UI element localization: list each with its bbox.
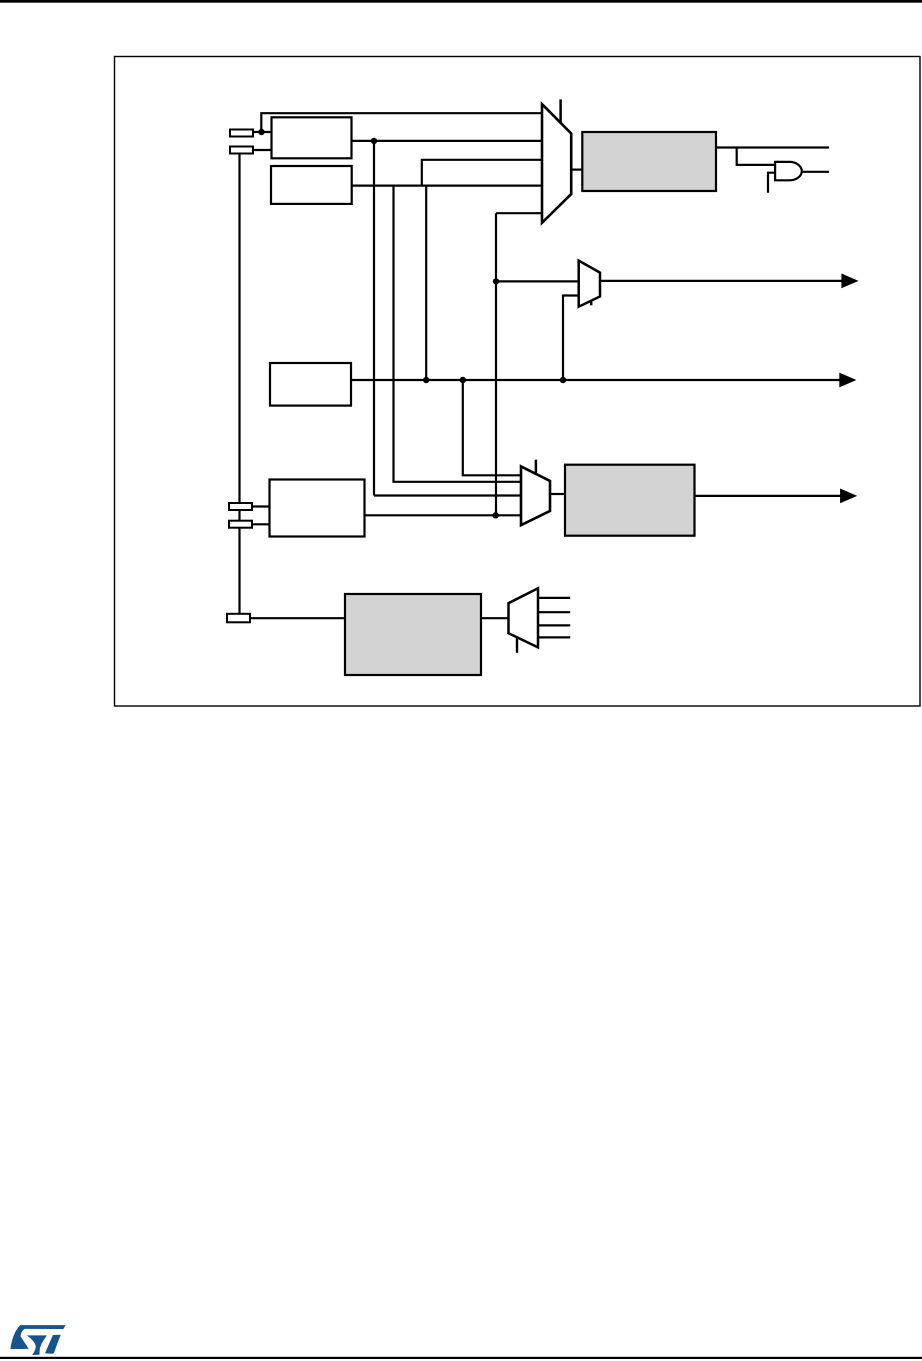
pin P5	[227, 614, 250, 623]
wire: feed to small mux U2 input a	[496, 280, 579, 282]
gray block G3	[345, 594, 481, 675]
node: junction on B1 output	[371, 138, 377, 144]
gray block G2	[565, 465, 695, 536]
mux U3 (lower multiplexer)	[521, 466, 550, 525]
arrowhead A2	[839, 373, 856, 388]
splitter select stub	[516, 637, 518, 653]
wire: vertical branch from B1 output down	[373, 141, 375, 496]
arrowhead A3	[840, 489, 857, 504]
wire: block B1 output to mux U1 input 2	[352, 140, 542, 142]
block B4	[270, 480, 365, 537]
mux U2 (small multiplexer)	[579, 261, 600, 307]
wire: block B4 output to mux U3 input d	[365, 514, 522, 516]
wire: block B2 output to mux U1 input 4	[352, 185, 542, 187]
node: junction on B3 line x426	[423, 377, 429, 383]
wire: left pin rail vertical	[238, 152, 240, 615]
wire: splitter output stub 3	[538, 624, 570, 626]
pin P3	[229, 503, 252, 510]
block B1 (oscillator)	[272, 117, 352, 158]
wire: mux U1 input 5 horizontal	[496, 212, 542, 214]
wire: splitter output stub 1	[538, 597, 570, 599]
wire: branch down from B3 line into mux U3 input a	[463, 380, 521, 475]
wire: splitter output stub 4	[538, 636, 570, 638]
gray block G1	[582, 132, 716, 191]
wire: small mux U2 input b L-shape	[563, 296, 579, 381]
mux U1 (big multiplexer)	[542, 104, 571, 223]
wire: pin OSC_OUT to block B1	[253, 149, 271, 151]
block B2	[271, 166, 352, 204]
pin OSC_OUT (P2)	[230, 147, 253, 154]
wire: small mux U2 output to arrow A1	[600, 280, 843, 282]
wire: drop from B2 line to mux U3 input b	[394, 186, 522, 482]
wire: horizontal into mux U3 input c	[374, 494, 521, 496]
arrowhead A1	[841, 274, 858, 289]
splitter (demux fan-out)	[509, 588, 539, 647]
wire: pin3 to block B4	[252, 505, 270, 507]
wire: pin4 to block B4	[252, 523, 270, 525]
wire: mux U3 output to gray block G2	[550, 493, 566, 495]
mux U1 select stub	[559, 99, 562, 123]
wire: long vertical from U1 input 5 down to B4 output line	[495, 213, 497, 515]
wire: splitter output stub 2	[538, 611, 570, 613]
node: junction on B3 line x463	[460, 377, 466, 383]
wire: AND gate input 2 stub	[768, 173, 775, 193]
wire: gray block G3 output to splitter	[481, 617, 508, 619]
wire: AND gate output	[801, 171, 830, 173]
wire: drop from B2 line to node on B3 output	[425, 186, 427, 380]
ST logo	[10, 1325, 65, 1355]
mux U2 select stub	[590, 301, 592, 306]
footer rule	[0, 1357, 922, 1359]
figure frame	[115, 57, 921, 707]
wire: OSC bypass top (mux U1 input 1)	[261, 113, 542, 132]
AND gate	[775, 162, 802, 180]
mux U3 select stub	[535, 460, 538, 474]
wire: pin5 to gray block G3	[250, 617, 345, 619]
node: junction on B4 output	[493, 512, 499, 518]
wire: gray block G2 output to arrow A3	[695, 495, 842, 497]
pin OSC_IN (P1)	[230, 130, 253, 137]
node: junction on pin1 wire	[258, 129, 264, 135]
wire: mux U1 output to gray block G1	[571, 169, 582, 171]
block B3	[270, 363, 351, 406]
header rule	[0, 0, 922, 3]
pin P4	[229, 521, 252, 528]
wire: pin OSC_IN to block B1	[253, 131, 271, 133]
wire: block B3 output long line to arrow A2	[351, 379, 841, 381]
wire: riser to mux U1 input 3	[422, 160, 542, 186]
node: junction on B3 line x563	[560, 377, 566, 383]
node: junction small mux feed	[493, 278, 499, 284]
wire: gray block G1 output	[716, 146, 829, 148]
wire: branch to AND gate input 1	[737, 148, 775, 165]
